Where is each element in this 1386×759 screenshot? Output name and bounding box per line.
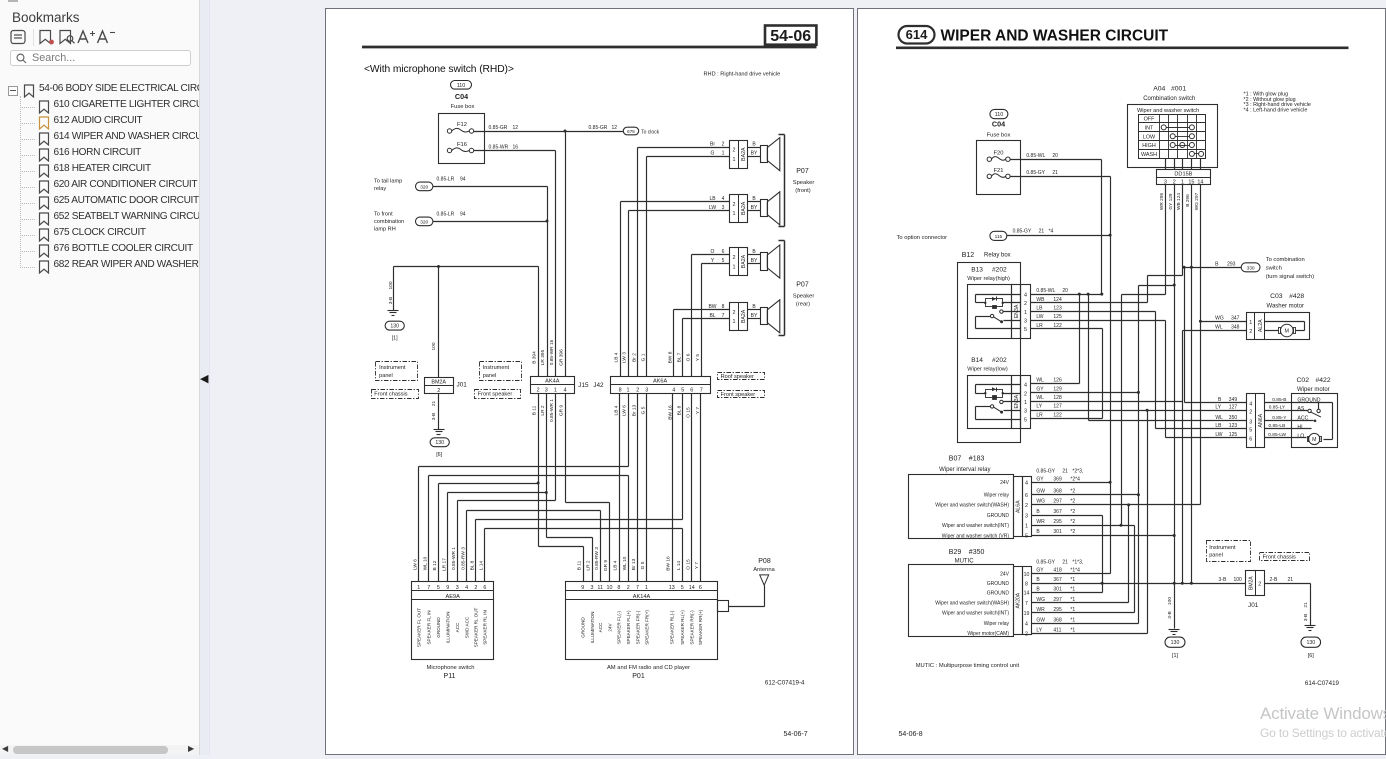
- wire LR 122 B14: [1031, 412, 1103, 418]
- svg-text:1: 1: [627, 388, 630, 394]
- svg-text:panel: panel: [483, 373, 497, 379]
- fuse F12: [447, 122, 473, 133]
- svg-text:#422: #422: [1316, 377, 1331, 384]
- svg-text:SPEAKER RR(-): SPEAKER RR(-): [690, 610, 695, 645]
- svg-text:B 12: B 12: [432, 560, 438, 570]
- svg-text:B14: B14: [971, 357, 983, 364]
- svg-text:9: 9: [446, 585, 449, 591]
- connector oval 130 [1] right page: [1165, 637, 1185, 659]
- svg-text:5: 5: [1024, 327, 1027, 333]
- wire LR vertical to AK4A: [546, 187, 549, 377]
- wiper washer switch table: [1139, 115, 1206, 159]
- wire GR below AK4A to radio: [566, 394, 610, 582]
- svg-text:3: 3: [1164, 179, 1167, 185]
- svg-text:LR: LR: [1036, 323, 1043, 329]
- svg-text:0.85-WR 16: 0.85-WR 16: [549, 339, 555, 365]
- svg-text:0.85-RW 3: 0.85-RW 3: [460, 547, 466, 570]
- wire WG bus vertical B29: [1127, 503, 1130, 602]
- wire GR vertical to AK4A: [565, 132, 567, 377]
- fuse F21: [987, 168, 1010, 179]
- wire BL rear speaker 2: [683, 319, 730, 377]
- svg-text:WL: WL: [1036, 378, 1044, 384]
- svg-text:21: 21: [1303, 602, 1309, 608]
- svg-text:Y 7: Y 7: [695, 407, 701, 414]
- svg-text:0.85-GR: 0.85-GR: [489, 125, 508, 131]
- svg-text:BY: BY: [751, 151, 758, 157]
- wire WL 128 B14: [1031, 331, 1183, 584]
- svg-text:Wiper relay: Wiper relay: [984, 621, 1010, 627]
- connector oval 320 front combination lamp: [416, 217, 433, 226]
- svg-text:switch: switch: [1266, 265, 1282, 271]
- tree expander: [8, 86, 18, 96]
- wire J01 to ground: [431, 394, 439, 430]
- svg-text:0.85-WR: 0.85-WR: [489, 144, 509, 150]
- svg-text:LR 2: LR 2: [586, 560, 592, 570]
- svg-text:Y 5: Y 5: [695, 354, 701, 361]
- connector oval 115: [990, 231, 1007, 240]
- svg-text:LOW: LOW: [1143, 134, 1156, 140]
- svg-text:AL6A: AL6A: [1016, 500, 1022, 513]
- wire Br front speaker: [638, 148, 730, 377]
- label To tail lamp relay: [374, 179, 402, 193]
- note RHD: [704, 72, 781, 78]
- svg-text:127: 127: [1053, 404, 1062, 410]
- svg-text:SPEAKER FL IN: SPEAKER FL IN: [427, 610, 432, 644]
- svg-text:4: 4: [564, 388, 567, 394]
- svg-text:WB 124: WB 124: [1176, 193, 1182, 210]
- label To front combination lamp RH: [374, 212, 404, 233]
- svg-text:14: 14: [689, 585, 695, 591]
- svg-text:128: 128: [1053, 395, 1062, 401]
- wire WL 348 washer motor: [1183, 325, 1247, 331]
- label To option connector: [897, 235, 948, 241]
- svg-text:367: 367: [1053, 509, 1062, 515]
- svg-text:(turn signal switch): (turn signal switch): [1266, 274, 1314, 280]
- svg-text:HI: HI: [1297, 424, 1302, 430]
- svg-text:612-C07419-4: 612-C07419-4: [765, 680, 805, 687]
- svg-text:2-B: 2-B: [1270, 577, 1278, 583]
- label Fuse box: [451, 104, 475, 110]
- svg-text:P08: P08: [758, 558, 771, 565]
- ground under J01: [434, 430, 445, 435]
- svg-text:J42: J42: [593, 382, 604, 389]
- svg-text:5: 5: [681, 585, 684, 591]
- svg-text:BY: BY: [751, 258, 758, 264]
- wire O AK6A to radio: [691, 394, 693, 582]
- svg-text:320: 320: [420, 184, 428, 190]
- svg-text:21: 21: [1052, 170, 1058, 176]
- svg-text:J01: J01: [457, 382, 468, 389]
- svg-text:ACC: ACC: [455, 622, 460, 632]
- svg-text:SPEAKER RL(-): SPEAKER RL(-): [670, 610, 675, 644]
- svg-text:125: 125: [1053, 314, 1062, 320]
- svg-text:F12: F12: [457, 122, 467, 128]
- svg-text:SPEAKER RR(+): SPEAKER RR(+): [698, 609, 703, 645]
- wire GY bus vertical: [1137, 286, 1175, 624]
- wire B 367 B29 ground bus: [1032, 577, 1246, 585]
- svg-text:100: 100: [1167, 597, 1173, 605]
- svg-text:LB 4: LB 4: [614, 405, 620, 415]
- svg-text:0.85-LR: 0.85-LR: [437, 212, 455, 218]
- svg-text:12: 12: [513, 125, 519, 131]
- svg-text:2: 2: [722, 142, 725, 148]
- svg-text:Br 13: Br 13: [631, 558, 637, 570]
- svg-text:0.85-LY: 0.85-LY: [1269, 405, 1286, 411]
- svg-text:B07: B07: [949, 456, 962, 463]
- wire Y AK6A to radio: [700, 394, 702, 582]
- ground left: [388, 311, 399, 316]
- page number 54-06-8: [899, 731, 923, 738]
- svg-text:0.85-WL: 0.85-WL: [1026, 153, 1045, 159]
- dashed box Roof speaker: [718, 373, 765, 381]
- svg-text:BL 8: BL 8: [470, 560, 476, 570]
- svg-text:OFF: OFF: [1144, 117, 1155, 123]
- svg-text:7: 7: [636, 585, 639, 591]
- svg-text:*1*4: *1*4: [1070, 568, 1080, 574]
- svg-text:relay: relay: [374, 186, 386, 192]
- svg-text:C04: C04: [455, 92, 468, 101]
- svg-text:123: 123: [1053, 306, 1062, 312]
- svg-text:2: 2: [1025, 503, 1028, 509]
- svg-text:#350: #350: [969, 549, 985, 556]
- svg-text:347: 347: [1231, 315, 1240, 321]
- svg-text:SPEAKER FR(-): SPEAKER FR(-): [635, 610, 640, 644]
- svg-text:LR 2: LR 2: [540, 405, 546, 415]
- svg-text:2: 2: [627, 585, 630, 591]
- svg-text:L 14: L 14: [676, 561, 682, 570]
- svg-text:21: 21: [1039, 228, 1045, 234]
- wire 0.85-LR 94 tail lamp: [433, 177, 548, 187]
- svg-text:14: 14: [1197, 179, 1203, 185]
- svg-text:122: 122: [1053, 412, 1062, 418]
- svg-text:B: B: [1036, 587, 1040, 593]
- bracket P07 rear speakers: [779, 241, 815, 336]
- svg-text:BM2A: BM2A: [1248, 576, 1254, 590]
- svg-text:lamp RH: lamp RH: [374, 227, 396, 233]
- footer diagram number right: [1305, 680, 1340, 687]
- svg-text:6: 6: [1249, 437, 1252, 443]
- notes glow plug: [1244, 92, 1311, 114]
- svg-text:*2*4: *2*4: [1070, 476, 1080, 482]
- svg-text:F21: F21: [994, 168, 1004, 174]
- svg-text:*4: *4: [1049, 228, 1054, 234]
- svg-text:C02: C02: [1297, 377, 1310, 384]
- svg-text:B: B: [1036, 529, 1040, 535]
- svg-text:1: 1: [733, 264, 736, 270]
- dashed box Instrument panel right: [1207, 541, 1251, 562]
- svg-text:LY: LY: [1036, 628, 1042, 634]
- wire WB 124 B13: [1031, 276, 1183, 303]
- wire labels AN6A left: [1215, 397, 1237, 438]
- wire WL microphone to radio: [429, 476, 629, 582]
- wire labels below DD15B: [1159, 192, 1200, 210]
- header title WIPER AND WASHER CIRCUIT: [941, 28, 1169, 45]
- svg-text:13: 13: [669, 585, 675, 591]
- svg-text:B29: B29: [949, 549, 962, 556]
- svg-text:3-B: 3-B: [431, 413, 437, 420]
- svg-text:Fuse box: Fuse box: [451, 104, 475, 110]
- svg-text:G: G: [711, 151, 715, 157]
- svg-text:2: 2: [474, 585, 477, 591]
- svg-text:0.85-RW 3: 0.85-RW 3: [594, 547, 600, 570]
- svg-text:MUTIC : Multipurpose timing co: MUTIC : Multipurpose timing control unit: [916, 663, 1020, 669]
- header rule: [896, 46, 1349, 49]
- connector oval 330: [1241, 257, 1314, 280]
- svg-text:*1: *1: [1070, 628, 1075, 634]
- wire labels above AE9A: [413, 547, 485, 571]
- svg-text:1: 1: [554, 388, 557, 394]
- svg-text:Antenna: Antenna: [753, 567, 775, 573]
- svg-text:GY: GY: [1036, 386, 1044, 392]
- svg-text:3: 3: [545, 388, 548, 394]
- svg-text:Wiper and washer switch (VR): Wiper and washer switch (VR): [942, 533, 1010, 539]
- wire B 296 DD15B vertical: [1190, 185, 1193, 584]
- svg-text:*1*3,: *1*3,: [1072, 560, 1083, 566]
- svg-text:ILLUMINATION: ILLUMINATION: [446, 612, 451, 644]
- svg-text:LW: LW: [1036, 314, 1043, 320]
- svg-text:GW: GW: [1036, 488, 1045, 494]
- label C04: [992, 120, 1005, 129]
- svg-text:*2: *2: [1070, 488, 1075, 494]
- svg-text:1: 1: [733, 211, 736, 217]
- wire labels above AK14A: [576, 547, 700, 571]
- svg-text:SPEAKER FL OUT: SPEAKER FL OUT: [417, 608, 422, 647]
- wire Br AK6A to radio: [637, 394, 639, 582]
- dashed box Front speaker 2: [718, 391, 765, 399]
- wire 0.85-LR 94 front combination: [433, 212, 548, 222]
- label C02 #422 Wiper motor: [1297, 377, 1331, 393]
- label B12 Relay box: [962, 252, 1011, 259]
- svg-text:20: 20: [1062, 288, 1068, 294]
- svg-text:SPEAKER RL(+): SPEAKER RL(+): [680, 610, 685, 645]
- wiper interval relay B07 box AL6A: [909, 475, 1032, 540]
- svg-text:F16: F16: [457, 142, 467, 148]
- svg-text:0.85-LR: 0.85-LR: [437, 177, 455, 183]
- wire labels above AK6A: [614, 351, 701, 363]
- svg-text:LR: LR: [1036, 412, 1043, 418]
- svg-text:B: B: [1215, 261, 1219, 267]
- wire labels AN6A right: [1268, 397, 1287, 438]
- svg-text:LW: LW: [1215, 432, 1222, 438]
- svg-text:AL2A: AL2A: [1258, 319, 1264, 332]
- svg-text:Br 2: Br 2: [631, 353, 637, 362]
- fuse F16: [447, 142, 473, 153]
- svg-text:24V: 24V: [1000, 480, 1010, 486]
- connector oval 675 to clock: [623, 127, 659, 135]
- wiper motor connector AN6A: [1247, 394, 1265, 448]
- svg-text:0.85-Y: 0.85-Y: [1272, 415, 1287, 421]
- svg-text:#202: #202: [992, 267, 1007, 274]
- svg-text:BM2A: BM2A: [431, 380, 446, 386]
- svg-text:J01: J01: [1248, 602, 1259, 609]
- svg-text:24V: 24V: [607, 622, 612, 631]
- wire LW to AN6A: [1166, 437, 1247, 439]
- svg-text:*1: *1: [1070, 617, 1075, 623]
- wire 0.85-GR 12 from F12 to clock: [474, 125, 624, 133]
- label B07 #183 Wiper interval relay: [939, 456, 990, 473]
- label Combination switch: [1143, 96, 1195, 102]
- svg-text:Wiper and washer switch(INT): Wiper and washer switch(INT): [942, 611, 1009, 617]
- connector oval 130 [1]: [385, 321, 404, 341]
- wire LW front speaker 2: [629, 211, 730, 377]
- svg-text:5: 5: [1249, 428, 1252, 434]
- wire RW microphone to radio: [467, 511, 601, 582]
- svg-text:7: 7: [1025, 601, 1028, 607]
- svg-text:AK14A: AK14A: [633, 594, 651, 600]
- svg-text:15: 15: [1188, 179, 1194, 185]
- wire WR vertical to AK4A: [555, 151, 557, 377]
- dashed box Instrument panel left: [376, 362, 418, 381]
- label 3-B 100 vertical: [388, 281, 394, 304]
- svg-text:123: 123: [1229, 423, 1238, 429]
- wire labels above AK4A: [532, 339, 565, 365]
- speaker front-1 connector BA2A: [710, 138, 780, 171]
- svg-text:1: 1: [1249, 320, 1252, 326]
- svg-text:LB 4: LB 4: [613, 560, 619, 570]
- connector oval 320 tail lamp: [416, 182, 433, 191]
- microphone switch P11 connector AE9A: [412, 582, 494, 681]
- svg-text:0.85-GR: 0.85-GR: [589, 125, 608, 131]
- svg-text:330: 330: [1247, 265, 1255, 271]
- svg-text:INT: INT: [1145, 126, 1154, 132]
- wire 0.85-WR 16 from F16: [474, 144, 556, 150]
- svg-text:100: 100: [431, 342, 437, 350]
- svg-text:0.85-GY: 0.85-GY: [1036, 468, 1055, 474]
- svg-text:0.85-LW: 0.85-LW: [1268, 432, 1286, 438]
- wiper motor C02 box: [1265, 394, 1338, 448]
- svg-text:Wiper relay(high): Wiper relay(high): [967, 276, 1010, 282]
- svg-text:LW 6: LW 6: [622, 405, 628, 416]
- wire B 349 branch to wiper motor: [1185, 268, 1247, 403]
- svg-text:6: 6: [1025, 493, 1028, 499]
- svg-text:3-B: 3-B: [1219, 577, 1227, 583]
- svg-text:O 15: O 15: [685, 407, 691, 418]
- svg-text:[6]: [6]: [1308, 653, 1314, 659]
- header rule: [362, 46, 817, 49]
- svg-text:LB 4: LB 4: [614, 352, 620, 362]
- svg-text:panel: panel: [379, 373, 393, 379]
- svg-text:To tail lamp: To tail lamp: [374, 179, 402, 185]
- svg-text:Front chassis: Front chassis: [1263, 555, 1296, 561]
- sidebar panel: [0, 0, 200, 755]
- svg-text:8: 8: [1025, 581, 1028, 587]
- svg-text:GW: GW: [1036, 617, 1045, 623]
- svg-text:Speaker: Speaker: [793, 180, 815, 186]
- wire LY branch vertical: [1147, 411, 1149, 634]
- svg-text:10: 10: [1024, 572, 1030, 578]
- svg-text:*2*3,: *2*3,: [1072, 468, 1083, 474]
- svg-text:411: 411: [1053, 628, 1061, 634]
- svg-text:#001: #001: [1171, 86, 1186, 93]
- svg-text:4: 4: [1024, 383, 1027, 389]
- svg-text:Wiper and washer switch(INT): Wiper and washer switch(INT): [942, 523, 1009, 529]
- svg-text:<With microphone switch (RHD)>: <With microphone switch (RHD)>: [364, 64, 514, 75]
- wire WR 295 B07: [1032, 519, 1135, 526]
- page number 54-06-7: [784, 731, 808, 738]
- svg-text:1: 1: [722, 151, 725, 157]
- svg-text:GY: GY: [1036, 568, 1044, 574]
- svg-text:ILLUMINATION: ILLUMINATION: [590, 612, 595, 644]
- svg-text:130: 130: [435, 440, 444, 446]
- svg-text:panel: panel: [1209, 553, 1223, 559]
- washer motor C03 box with AL2A: [1247, 313, 1310, 340]
- wire LY 411 B29: [1032, 628, 1148, 634]
- ground right: [1305, 626, 1316, 631]
- wire 0.85-WL 20 from F20: [1011, 153, 1104, 296]
- svg-text:675: 675: [627, 129, 635, 134]
- svg-text:2: 2: [1024, 391, 1027, 397]
- svg-text:M: M: [1285, 329, 1290, 335]
- svg-text:2: 2: [537, 388, 540, 394]
- wire LW AK6A to microphone: [419, 394, 629, 582]
- svg-text:Wiper motor(CAM): Wiper motor(CAM): [967, 631, 1009, 637]
- svg-text:126: 126: [1053, 378, 1062, 384]
- svg-text:3: 3: [645, 388, 648, 394]
- wire to joint J01: [431, 267, 439, 378]
- label Fuse box: [987, 133, 1011, 139]
- svg-text:BA2A: BA2A: [741, 201, 747, 215]
- svg-text:J15: J15: [578, 382, 589, 389]
- svg-text:M: M: [1312, 437, 1316, 443]
- svg-text:*4 : Left-hand drive vehicle: *4 : Left-hand drive vehicle: [1244, 107, 1308, 113]
- svg-text:297: 297: [1053, 499, 1062, 505]
- svg-text:BA2A: BA2A: [741, 254, 747, 268]
- svg-text:WIPER AND WASHER CIRCUIT: WIPER AND WASHER CIRCUIT: [941, 28, 1169, 45]
- wire WG 297 DD15B vertical: [1199, 185, 1202, 505]
- svg-text:1: 1: [417, 585, 420, 591]
- svg-text:[1]: [1]: [392, 336, 398, 342]
- svg-text:*1: *1: [1070, 577, 1075, 583]
- svg-text:6: 6: [699, 585, 702, 591]
- svg-text:WL 10: WL 10: [423, 556, 429, 570]
- dashed box Front chassis: [372, 390, 419, 399]
- svg-text:RHD : Right-hand drive vehicle: RHD : Right-hand drive vehicle: [704, 72, 781, 78]
- dashed box Instrument panel 2: [480, 362, 522, 381]
- svg-text:0.85-GY: 0.85-GY: [1026, 170, 1045, 176]
- label C04: [455, 92, 468, 101]
- svg-text:2: 2: [1258, 582, 1261, 588]
- svg-text:0.85-GY: 0.85-GY: [1013, 228, 1032, 234]
- svg-text:94: 94: [460, 177, 466, 183]
- svg-text:P07: P07: [796, 168, 809, 175]
- svg-text:369: 369: [1053, 476, 1062, 482]
- wire 0.85-GY 21 *4 option connector: [1007, 228, 1111, 235]
- svg-text:O 6: O 6: [685, 353, 691, 361]
- svg-text:100: 100: [388, 281, 394, 289]
- svg-text:Br: Br: [710, 142, 715, 148]
- wire WR 295 B29: [1032, 607, 1135, 613]
- svg-text:Wiper relay: Wiper relay: [984, 493, 1010, 499]
- antenna P08: [729, 558, 776, 607]
- svg-text:#183: #183: [969, 456, 985, 463]
- wire GY 129 B14: [1031, 386, 1139, 392]
- wire LR below AK4A: [448, 394, 593, 582]
- wire GY 418 B29: [1032, 560, 1111, 574]
- MUTIC B29 box AK20A: [909, 565, 1032, 638]
- wire LR 122 B13 to B14: [1031, 323, 1103, 419]
- svg-text:0.85-WR 1: 0.85-WR 1: [451, 547, 457, 570]
- page 2: [857, 8, 1386, 755]
- svg-text:To combination: To combination: [1266, 257, 1305, 263]
- svg-text:GR 9: GR 9: [559, 405, 565, 417]
- wire G AK6A to radio: [646, 394, 648, 582]
- svg-text:P01: P01: [632, 673, 645, 680]
- svg-text:AM and FM radio and CD player: AM and FM radio and CD player: [607, 665, 690, 671]
- svg-text:21: 21: [1062, 468, 1068, 474]
- svg-text:WR: WR: [1036, 519, 1045, 525]
- speaker front-2 connector BA2A: [709, 192, 780, 225]
- svg-text:Front chassis: Front chassis: [374, 392, 407, 398]
